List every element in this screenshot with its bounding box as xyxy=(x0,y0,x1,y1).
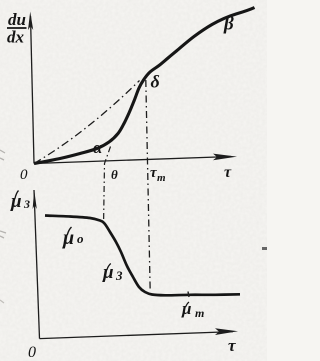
scan speck right edge xyxy=(262,247,267,250)
svg-text:3: 3 xyxy=(115,268,123,283)
svg-text:μ: μ xyxy=(181,299,191,318)
svg-text:m: m xyxy=(195,306,204,320)
main curve alpha-delta-beta xyxy=(34,8,255,164)
label mu_m xyxy=(181,299,204,320)
svg-text:τ: τ xyxy=(228,336,236,355)
svg-text:0: 0 xyxy=(20,167,28,183)
y-axis top plot xyxy=(28,12,34,164)
vertical dash-dot line at tau_m xyxy=(146,80,150,292)
svg-text:β: β xyxy=(223,14,234,35)
axis label du/dx xyxy=(7,10,27,47)
x-axis top plot xyxy=(34,154,237,164)
mu curve (mu0 to mu_m) xyxy=(45,216,240,296)
svg-text:τ: τ xyxy=(224,164,232,181)
svg-text:α: α xyxy=(93,138,103,157)
svg-text:o: o xyxy=(77,231,84,246)
scan smudge left edge middle xyxy=(0,231,6,238)
svg-text:θ: θ xyxy=(111,167,118,182)
label mu_3 (curve) xyxy=(102,262,123,283)
label mu_o xyxy=(62,227,84,249)
dash line at theta xyxy=(104,147,111,222)
tick on mu_m line xyxy=(188,292,189,298)
svg-text:δ: δ xyxy=(151,72,160,92)
svg-text:du: du xyxy=(8,10,26,29)
x-axis bottom plot xyxy=(40,328,239,338)
y-axis bottom plot xyxy=(33,190,40,339)
svg-text:dx: dx xyxy=(7,28,25,47)
dash-dot secant line from origin to delta xyxy=(34,81,140,164)
scan smudge left edge lower xyxy=(0,300,4,303)
svg-text:m: m xyxy=(157,172,166,184)
scan smudge left edge upper xyxy=(0,150,5,160)
svg-text:μ: μ xyxy=(102,262,114,283)
svg-text:μ: μ xyxy=(62,227,74,249)
svg-text:0: 0 xyxy=(28,344,36,361)
axis label mu_3 xyxy=(10,191,30,213)
svg-text:3: 3 xyxy=(23,197,30,211)
label tau_m xyxy=(150,165,166,184)
